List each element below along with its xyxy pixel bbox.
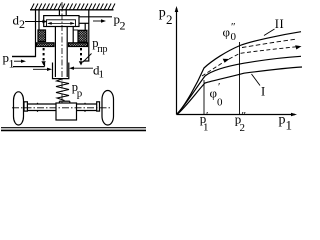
shelf right	[73, 29, 78, 31]
svg-text:′: ′	[218, 81, 220, 93]
dashed curve E below II	[242, 39, 295, 47]
p2 arrow	[93, 20, 102, 22]
d1 dimension left	[33, 68, 50, 70]
I leader	[252, 74, 261, 86]
svg-text:φ: φ	[210, 86, 218, 101]
svg-text:пр: пр	[97, 44, 107, 55]
tick vertical p'1	[203, 80, 205, 115]
spring seat	[59, 100, 69, 102]
d1 dimension right	[71, 67, 93, 69]
axle tube right	[77, 103, 97, 105]
centerline valve (dash-dot)	[61, 2, 63, 103]
svg-text:0: 0	[217, 97, 223, 109]
left cylinder wall	[38, 10, 40, 30]
curve II	[177, 32, 302, 115]
right hanger wall	[84, 23, 86, 31]
cup walls	[53, 63, 69, 79]
y-axis	[176, 8, 178, 115]
left seat strip	[37, 43, 55, 47]
left dotted flow line	[41, 48, 45, 66]
svg-text:1: 1	[286, 118, 293, 133]
right seal block	[78, 30, 87, 42]
right outer wall	[83, 10, 89, 61]
valve cap rectangle	[44, 16, 79, 27]
d2 dimension line	[25, 21, 46, 23]
svg-text:1: 1	[99, 69, 105, 81]
tick vertical p''2	[239, 42, 241, 115]
svg-text:p: p	[279, 112, 286, 127]
right wheel	[102, 91, 114, 126]
double arrow inside cap	[48, 22, 74, 24]
stem walls	[54, 27, 56, 78]
curve D	[177, 67, 302, 115]
svg-text:I: I	[261, 85, 265, 99]
ceiling hatch	[31, 4, 115, 10]
left hub	[24, 102, 27, 111]
axle centerline	[12, 107, 110, 109]
II leader	[264, 29, 275, 36]
svg-text:II: II	[275, 17, 284, 31]
p_pr leader	[83, 54, 92, 63]
inner rectangle	[47, 20, 76, 27]
svg-text:φ: φ	[223, 25, 231, 40]
svg-text:2: 2	[166, 12, 173, 27]
svg-text:1: 1	[9, 57, 15, 71]
axle housing	[56, 103, 77, 120]
svg-text:′: ′	[206, 110, 208, 122]
p2 outlet channel	[79, 16, 112, 18]
left outer wall	[12, 10, 36, 57]
right dotted flow line	[79, 48, 83, 66]
svg-text:2: 2	[120, 19, 126, 33]
ceiling line	[30, 9, 114, 11]
svg-text:2: 2	[19, 17, 25, 31]
svg-text:р: р	[77, 88, 83, 100]
x-axis	[177, 114, 296, 116]
mount legs	[58, 10, 60, 16]
spring	[56, 79, 69, 101]
axle tube left	[27, 103, 56, 105]
right seat strip	[69, 43, 88, 47]
left wheel	[14, 92, 24, 125]
p1 arrow	[14, 60, 22, 62]
svg-text:0: 0	[231, 31, 237, 43]
left seal block	[38, 30, 46, 42]
ground lines	[1, 127, 146, 129]
right skirt wall	[72, 27, 74, 43]
svg-text:″: ″	[242, 110, 247, 122]
svg-text:p: p	[159, 5, 166, 20]
curve C	[177, 56, 302, 114]
dashed transition line with arrows	[202, 63, 223, 77]
svg-text:2: 2	[240, 122, 246, 134]
p1 inlet channel	[12, 56, 36, 58]
svg-text:1: 1	[203, 122, 209, 134]
right hub	[97, 102, 100, 111]
